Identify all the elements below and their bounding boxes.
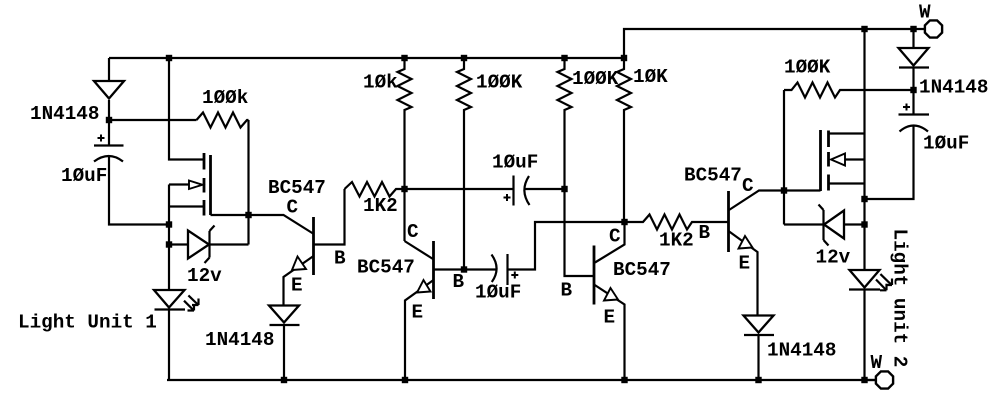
svg-text:Light Unit 1: Light Unit 1 bbox=[18, 312, 157, 334]
svg-text:1ØØk: 1ØØk bbox=[202, 87, 249, 109]
svg-text:12v: 12v bbox=[187, 265, 222, 287]
svg-text:E: E bbox=[604, 307, 616, 329]
svg-text:E: E bbox=[291, 275, 303, 297]
svg-text:12v: 12v bbox=[816, 247, 851, 269]
svg-text:E: E bbox=[739, 253, 751, 275]
svg-text:1N4148: 1N4148 bbox=[30, 103, 99, 125]
svg-text:B: B bbox=[453, 271, 465, 293]
svg-text:W: W bbox=[919, 2, 931, 24]
svg-text:BC547: BC547 bbox=[613, 259, 671, 281]
svg-text:B: B bbox=[699, 222, 711, 244]
svg-text:1N4148: 1N4148 bbox=[205, 329, 274, 351]
svg-text:W: W bbox=[871, 352, 883, 374]
svg-text:C: C bbox=[742, 175, 754, 197]
svg-text:C: C bbox=[407, 221, 419, 243]
svg-text:1ØØK: 1ØØK bbox=[572, 68, 619, 90]
svg-text:B: B bbox=[334, 248, 346, 270]
svg-text:1N4148: 1N4148 bbox=[767, 340, 836, 362]
svg-text:1ØuF: 1ØuF bbox=[61, 165, 107, 187]
svg-text:1ØK: 1ØK bbox=[633, 66, 668, 88]
svg-text:1ØuF: 1ØuF bbox=[475, 282, 521, 304]
svg-text:Light unit 2: Light unit 2 bbox=[889, 229, 911, 368]
svg-text:C: C bbox=[609, 226, 621, 248]
svg-text:1ØuF: 1ØuF bbox=[492, 152, 538, 174]
svg-text:B: B bbox=[561, 280, 573, 302]
svg-text:BC547: BC547 bbox=[684, 165, 742, 187]
svg-text:1K2: 1K2 bbox=[659, 230, 694, 252]
svg-text:1Øk: 1Øk bbox=[363, 72, 398, 94]
svg-text:C: C bbox=[287, 197, 299, 219]
svg-text:BC547: BC547 bbox=[357, 257, 415, 279]
svg-text:1ØuF: 1ØuF bbox=[923, 133, 969, 155]
svg-text:1N4148: 1N4148 bbox=[919, 77, 988, 99]
svg-text:1ØØK: 1ØØK bbox=[784, 57, 831, 79]
svg-text:1K2: 1K2 bbox=[363, 195, 398, 217]
svg-text:1ØØK: 1ØØK bbox=[476, 72, 523, 94]
svg-text:E: E bbox=[412, 302, 424, 324]
